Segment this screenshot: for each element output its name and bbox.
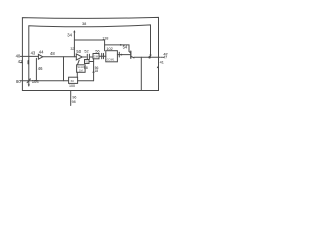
- node arrow label 41 pointer: [157, 66, 159, 68]
- outer box (IC outline): [22, 17, 158, 90]
- transistor Q54: [130, 51, 132, 58]
- node bias arrow 104: [27, 79, 30, 83]
- wire: bottom bus right: [78, 80, 94, 82]
- svg-text:42: 42: [18, 59, 23, 64]
- svg-text:40: 40: [16, 54, 21, 59]
- box A (bias block): [77, 65, 86, 73]
- wire: box B stub to drop: [89, 61, 94, 63]
- node arrow at top of line 32: [73, 30, 75, 32]
- svg-text:80: 80: [16, 79, 21, 84]
- wire: box 56 drop to bus: [93, 59, 95, 81]
- svg-text:GM: GM: [94, 54, 98, 58]
- svg-text:60: 60: [71, 79, 75, 83]
- wire: box A to box 60: [76, 72, 78, 77]
- node rail arrowhead into output: [149, 55, 151, 57]
- wire: output stub dashes: [161, 56, 163, 58]
- svg-text:48: 48: [50, 51, 55, 56]
- box 102 (comparator): [106, 51, 118, 62]
- svg-text:54: 54: [123, 45, 128, 50]
- node arrowhead on left rail bottom: [28, 84, 30, 86]
- svg-text:34: 34: [67, 33, 72, 38]
- node output junction: [148, 56, 151, 59]
- svg-text:COM1: COM1: [107, 57, 115, 61]
- wire: collector supply line: [105, 45, 129, 52]
- wire: top arrow line 32: [73, 32, 75, 57]
- wire: bottom bus left: [21, 80, 69, 82]
- wire: link from line 32 to drop: [74, 39, 104, 41]
- supply rail (inner top line with side verticals): [29, 25, 151, 86]
- wire: box 102 to Q54 base: [117, 54, 130, 56]
- box 60: [69, 77, 78, 83]
- wire: drop 138 to collector line: [104, 40, 106, 51]
- wire: amp1 output to amp2: [43, 56, 77, 58]
- svg-text:18: 18: [94, 69, 98, 73]
- svg-text:47: 47: [163, 56, 167, 60]
- svg-text:43: 43: [31, 50, 36, 55]
- node tick on left rail: [27, 61, 29, 64]
- svg-text:56: 56: [95, 49, 99, 53]
- node base junction: [121, 54, 123, 56]
- node junction on collector line: [120, 44, 122, 46]
- svg-text:104: 104: [32, 79, 40, 84]
- svg-text:41: 41: [160, 60, 164, 64]
- wire: input lead 40: [20, 55, 38, 57]
- svg-text:50: 50: [76, 49, 81, 54]
- wire: mid drop to bus: [63, 57, 65, 81]
- wire: leader 42 to edge: [21, 62, 23, 64]
- box 56 (gm cell): [93, 54, 99, 59]
- wire: box 56 to capacitor C58: [99, 53, 106, 58]
- svg-text:102: 102: [106, 47, 112, 51]
- wire: pulldown to bottom rail: [140, 57, 142, 90]
- svg-text:44: 44: [39, 49, 44, 54]
- svg-text:1M: 1M: [79, 68, 83, 72]
- svg-text:98: 98: [72, 100, 76, 104]
- op-amp U50 (second amplifier triangle): [76, 54, 82, 60]
- wire: feedback drop 46: [35, 58, 37, 80]
- box B (level shift): [85, 60, 90, 64]
- capacitor at box 102 output: [118, 52, 120, 57]
- ground stem: [70, 91, 72, 106]
- wire: emitter/output line: [134, 56, 160, 58]
- svg-text:100: 100: [69, 84, 75, 88]
- op-amp U44 (first amplifier triangle): [38, 54, 42, 59]
- wire: diagonal amp2 to box A: [77, 60, 79, 65]
- svg-text:138: 138: [102, 37, 108, 41]
- svg-text:52: 52: [84, 50, 88, 54]
- svg-text:32: 32: [70, 47, 74, 51]
- svg-text:38: 38: [82, 21, 86, 26]
- node arrow on drop: [92, 70, 94, 73]
- capacitor C52: [82, 54, 93, 59]
- svg-text:46: 46: [38, 66, 43, 71]
